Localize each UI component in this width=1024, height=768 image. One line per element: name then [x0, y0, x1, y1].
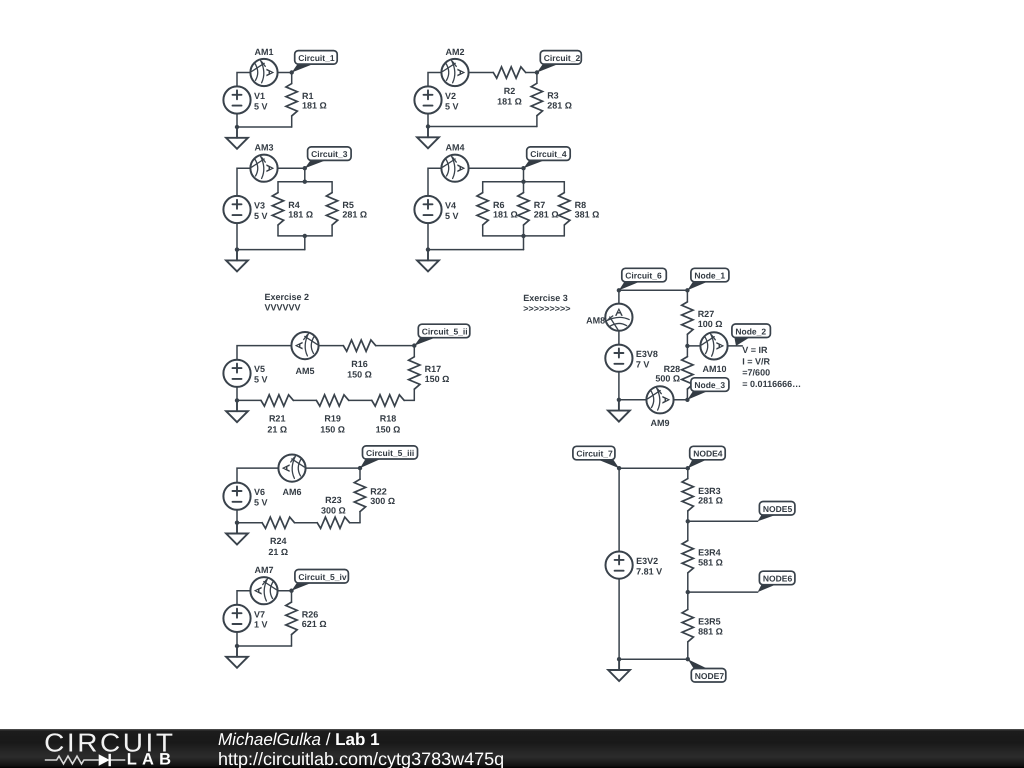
- svg-text:R7: R7: [534, 200, 546, 210]
- svg-text:I = V/R: I = V/R: [742, 356, 770, 366]
- svg-text:Circuit_1: Circuit_1: [298, 53, 335, 63]
- resistor R22: [359, 468, 361, 479]
- wire to AM9: [619, 399, 647, 401]
- ammeter AM5: [291, 332, 318, 359]
- logo resistor-diode symbol: [45, 756, 126, 764]
- junction rail bottom c4: [521, 234, 525, 238]
- resistor R23: [317, 517, 349, 528]
- wire rail top c3: [278, 181, 332, 183]
- flag Circuit_5_iv: [292, 583, 313, 591]
- wire bottom circuit 5_iv: [237, 645, 292, 647]
- ground c5ii: [226, 400, 248, 422]
- svg-text:R8: R8: [575, 200, 587, 210]
- svg-text:V3: V3: [254, 200, 265, 210]
- wire AM7 to node: [278, 590, 292, 592]
- wire AM9 to Node_3: [674, 399, 688, 401]
- junction ground node c2: [426, 124, 430, 128]
- svg-text:E3V8: E3V8: [636, 349, 658, 359]
- svg-text:AM3: AM3: [254, 143, 273, 153]
- svg-text:AM9: AM9: [650, 418, 669, 428]
- svg-text:Circuit_5_iv: Circuit_5_iv: [298, 572, 346, 582]
- svg-text:Exercise 2: Exercise 2: [265, 292, 310, 302]
- flag Circuit_6: [619, 282, 640, 291]
- resistor R18: [372, 395, 404, 406]
- svg-text:150 Ω: 150 Ω: [376, 425, 401, 435]
- junction node Circuit_3: [303, 166, 307, 170]
- svg-text:5 V: 5 V: [445, 101, 459, 111]
- svg-text:R3: R3: [547, 91, 559, 101]
- svg-text:5 V: 5 V: [254, 375, 268, 385]
- flag Circuit_2: [537, 64, 558, 72]
- svg-text:5 V: 5 V: [254, 498, 268, 508]
- junction node Node_3: [685, 398, 689, 402]
- svg-text:NODE4: NODE4: [693, 449, 723, 459]
- svg-text:V1: V1: [254, 91, 265, 101]
- wire R18 to R17: [404, 399, 414, 401]
- junction node Circuit_5_iv: [289, 589, 293, 593]
- wire AM4 to node: [469, 167, 524, 169]
- flag Node_2: [734, 338, 749, 346]
- ammeter AM4: [441, 155, 468, 182]
- resistor R7: [523, 182, 525, 193]
- wire AM3 to node: [278, 167, 305, 169]
- svg-text:Circuit_5_iii: Circuit_5_iii: [366, 448, 414, 458]
- wire R19 to R18: [349, 399, 372, 401]
- svg-text:VVVVVV: VVVVVV: [265, 302, 301, 312]
- svg-text:281 Ω: 281 Ω: [534, 210, 559, 220]
- resistor R26: [291, 591, 293, 602]
- svg-text:AM6: AM6: [282, 487, 301, 497]
- junction ground node c4: [426, 247, 430, 251]
- resistor R16: [343, 340, 375, 351]
- wire R23 to R22: [350, 522, 360, 524]
- svg-text:E3R4: E3R4: [698, 548, 721, 558]
- wire V3 bottom: [236, 223, 238, 250]
- svg-text:Node_2: Node_2: [735, 326, 766, 336]
- flag NODE7: [688, 659, 707, 668]
- wire V2 top to AM2: [428, 73, 441, 87]
- wire to NODE5 flag: [688, 520, 758, 522]
- wire R16 to node: [376, 345, 415, 347]
- svg-text:AM4: AM4: [445, 143, 464, 153]
- wire bottom circuit 1: [237, 126, 292, 128]
- flag Circuit_5_iii: [360, 459, 381, 468]
- wire bottom circuit 7: [619, 658, 688, 660]
- svg-text:R24: R24: [270, 536, 287, 546]
- svg-text:21 Ω: 21 Ω: [267, 425, 287, 435]
- wire V2 bottom: [427, 114, 429, 127]
- svg-text:AM1: AM1: [254, 47, 273, 57]
- svg-text:181 Ω: 181 Ω: [493, 210, 518, 220]
- wire R2 to node: [526, 72, 537, 74]
- svg-text:100 Ω: 100 Ω: [698, 319, 723, 329]
- junction ground node c5iv: [235, 644, 239, 648]
- svg-text:E3V2: E3V2: [636, 556, 658, 566]
- junction rail bottom c3: [303, 234, 307, 238]
- svg-text:R22: R22: [370, 486, 387, 496]
- wire V4 bottom: [427, 223, 429, 250]
- wire V4 top to AM4: [428, 168, 441, 196]
- svg-text:Circuit_7: Circuit_7: [576, 449, 613, 459]
- ammeter AM1: [250, 59, 277, 86]
- flag Circuit_4: [524, 160, 545, 168]
- svg-text:V = IR: V = IR: [742, 345, 768, 355]
- svg-text:Circuit_3: Circuit_3: [311, 149, 348, 159]
- svg-text:AM8: AM8: [586, 316, 605, 326]
- wire AM5 to R16: [319, 345, 344, 347]
- svg-text:AM7: AM7: [254, 565, 273, 575]
- ammeter AM10: [700, 332, 727, 359]
- junction node NODE4: [686, 466, 690, 470]
- svg-text:5 V: 5 V: [445, 211, 459, 221]
- wire E3V2 bottom: [618, 579, 620, 660]
- svg-text:581 Ω: 581 Ω: [698, 558, 723, 568]
- junction ground node c3: [235, 247, 239, 251]
- wire E3V8 bottom: [618, 372, 620, 400]
- svg-text:AM5: AM5: [295, 366, 314, 376]
- wire bottom circuit 4: [428, 249, 524, 251]
- junction node Circuit_7: [617, 466, 621, 470]
- svg-text:V5: V5: [254, 364, 265, 374]
- flag Node_1: [687, 282, 707, 291]
- resistor R4: [277, 182, 279, 193]
- svg-text:281 Ω: 281 Ω: [698, 496, 723, 506]
- wire V3 top to AM3: [237, 168, 250, 196]
- junction node NODE7: [686, 657, 690, 661]
- svg-text:300 Ω: 300 Ω: [370, 496, 395, 506]
- wire R21 to R19: [293, 399, 316, 401]
- svg-text:=7/600: =7/600: [742, 368, 770, 378]
- CircuitLab logo: [30, 728, 230, 768]
- svg-text:281 Ω: 281 Ω: [547, 100, 572, 110]
- wire rail bottom c4: [483, 235, 565, 237]
- junction node Circuit_4: [521, 166, 525, 170]
- junction rail top c3: [303, 180, 307, 184]
- svg-text:R5: R5: [342, 200, 354, 210]
- resistor R28: [686, 346, 688, 357]
- junction node Circuit_6: [617, 288, 621, 292]
- resistor E3R3: [687, 468, 689, 478]
- footer author line: [218, 730, 380, 750]
- voltage source V2: [414, 86, 458, 113]
- junction node Circuit_5_iii: [358, 466, 362, 470]
- ammeter AM3: [250, 155, 277, 182]
- resistor R24: [262, 517, 294, 528]
- resistor R6: [482, 182, 484, 193]
- wire V7 bottom: [236, 632, 238, 646]
- wire V7 top to AM7: [237, 591, 250, 605]
- wire to AM8: [618, 290, 620, 303]
- voltage source V7: [223, 605, 267, 632]
- resistor E3R5: [687, 592, 689, 609]
- junction node NODE6: [686, 590, 690, 594]
- svg-text:R21: R21: [269, 414, 286, 424]
- svg-text:NODE6: NODE6: [763, 574, 793, 584]
- resistor R8: [563, 182, 565, 193]
- svg-text:= 0.0116666…: = 0.0116666…: [742, 379, 801, 389]
- flag Node_3: [687, 391, 707, 400]
- svg-text:5 V: 5 V: [254, 211, 268, 221]
- wire node down c4: [523, 168, 525, 182]
- wire to R24: [237, 522, 262, 524]
- junction ground node c6: [617, 398, 621, 402]
- junction node Node_1: [685, 288, 689, 292]
- wire V5 bottom: [236, 387, 238, 401]
- wire V5 top to AM5: [237, 346, 291, 360]
- ammeter AM8: [605, 304, 632, 331]
- wire rail bottom c3: [278, 235, 332, 237]
- ammeter AM2: [441, 59, 468, 86]
- resistor R2: [493, 67, 525, 78]
- svg-text:Circuit_4: Circuit_4: [530, 149, 567, 159]
- wire bottom circuit 3: [237, 249, 305, 251]
- resistor R27: [686, 290, 688, 302]
- svg-text:181 Ω: 181 Ω: [497, 97, 522, 107]
- wire AM2 to R2: [469, 72, 494, 74]
- voltage source V4: [414, 196, 458, 223]
- svg-text:R18: R18: [380, 414, 397, 424]
- flag Circuit_1: [292, 64, 313, 72]
- voltage source V1: [223, 86, 267, 113]
- svg-text:150 Ω: 150 Ω: [347, 370, 372, 380]
- svg-text:R28: R28: [664, 364, 681, 374]
- svg-text:281 Ω: 281 Ω: [342, 210, 367, 220]
- wire AM8 to E3V8: [618, 331, 620, 345]
- ground c7: [608, 659, 630, 681]
- ground c5iv: [226, 646, 248, 668]
- resistor R1: [291, 73, 293, 84]
- svg-text:R1: R1: [302, 91, 314, 101]
- resistor R17: [413, 346, 415, 357]
- ground c2: [417, 127, 439, 149]
- wire bottom circuit 2: [428, 126, 537, 128]
- svg-text:Circuit_6: Circuit_6: [625, 271, 662, 281]
- svg-text:R17: R17: [425, 364, 442, 374]
- wire node down: [304, 168, 306, 182]
- svg-text:V6: V6: [254, 487, 265, 497]
- wire rail to bottom c4: [523, 236, 525, 250]
- footer bar: [0, 729, 1024, 768]
- svg-text:300 Ω: 300 Ω: [321, 506, 346, 516]
- wire V6 top to AM6: [237, 468, 278, 482]
- svg-text:R19: R19: [324, 414, 341, 424]
- svg-text:Exercise 3: Exercise 3: [523, 293, 568, 303]
- flag NODE6: [758, 585, 776, 592]
- svg-text:881 Ω: 881 Ω: [698, 626, 723, 636]
- junction node Node_2 branch: [685, 344, 689, 348]
- svg-text:7 V: 7 V: [636, 360, 650, 370]
- svg-text:5 V: 5 V: [254, 101, 268, 111]
- voltage source V5: [223, 360, 267, 387]
- svg-text:R6: R6: [493, 200, 505, 210]
- wire V6 bottom: [236, 510, 238, 523]
- svg-text:1 V: 1 V: [254, 620, 268, 630]
- resistor E3R4: [687, 521, 689, 540]
- ammeter AM7: [250, 577, 277, 604]
- svg-text:7.81 V: 7.81 V: [636, 566, 662, 576]
- junction node Circuit_2: [535, 70, 539, 74]
- junction ground node c7: [617, 657, 621, 661]
- ground c5iii: [226, 523, 248, 545]
- voltage source V6: [223, 483, 267, 510]
- svg-text:AM10: AM10: [702, 364, 726, 374]
- svg-text:V4: V4: [445, 200, 456, 210]
- wire top circuit 7: [619, 467, 688, 469]
- junction node Circuit_5_ii: [412, 343, 416, 347]
- svg-text:E3R3: E3R3: [698, 486, 721, 496]
- resistor R21: [261, 395, 293, 406]
- voltage source V3: [223, 196, 267, 223]
- svg-text:150 Ω: 150 Ω: [320, 425, 345, 435]
- wire AM1 to node: [278, 72, 292, 74]
- svg-text:NODE7: NODE7: [695, 671, 725, 681]
- resistor R5: [331, 182, 333, 193]
- junction node Circuit_1: [290, 70, 294, 74]
- junction rail top c4: [521, 180, 525, 184]
- flag Circuit_3: [305, 160, 326, 168]
- svg-text:E3R5: E3R5: [698, 617, 721, 627]
- wire to AM10: [687, 345, 700, 347]
- junction ground node c5ii: [235, 398, 239, 402]
- ground c1: [226, 127, 248, 149]
- resistor R19: [316, 395, 348, 406]
- svg-text:V2: V2: [445, 91, 456, 101]
- ammeter AM6: [278, 455, 305, 482]
- svg-text:>>>>>>>>>: >>>>>>>>>: [523, 303, 570, 313]
- svg-text:V7: V7: [254, 609, 265, 619]
- svg-text:LAB: LAB: [127, 751, 177, 768]
- ground c4: [417, 250, 439, 272]
- svg-text:Circuit_5_ii: Circuit_5_ii: [422, 327, 468, 337]
- svg-text:Node_1: Node_1: [694, 271, 725, 281]
- svg-text:R23: R23: [325, 495, 342, 505]
- flag Circuit_5_ii: [414, 338, 435, 346]
- svg-text:R27: R27: [698, 309, 715, 319]
- junction node NODE5: [686, 519, 690, 523]
- wire V1 bottom: [236, 114, 238, 127]
- svg-text:AM2: AM2: [445, 47, 464, 57]
- wire rail to bottom: [304, 236, 306, 250]
- svg-text:181 Ω: 181 Ω: [302, 101, 327, 111]
- svg-text:500 Ω: 500 Ω: [655, 374, 680, 384]
- svg-text:R26: R26: [302, 609, 319, 619]
- voltage source E3V2: [606, 552, 663, 579]
- junction ground node c5iii: [235, 521, 239, 525]
- svg-text:621 Ω: 621 Ω: [302, 619, 327, 629]
- wire R24 to R23: [295, 522, 318, 524]
- ammeter AM9: [646, 386, 673, 413]
- resistor R3: [536, 73, 538, 84]
- wire rail top c4: [483, 181, 565, 183]
- svg-text:Node_3: Node_3: [694, 380, 725, 390]
- wire to NODE6 flag: [688, 591, 758, 593]
- svg-text:150 Ω: 150 Ω: [425, 374, 450, 384]
- junction ground node c1: [235, 125, 239, 129]
- svg-text:Circuit_2: Circuit_2: [544, 53, 581, 63]
- svg-text:R2: R2: [504, 86, 516, 96]
- flag NODE5: [758, 515, 776, 521]
- svg-text:181 Ω: 181 Ω: [288, 210, 313, 220]
- svg-text:381 Ω: 381 Ω: [575, 210, 600, 220]
- ground c6: [608, 400, 630, 422]
- flag NODE4: [688, 460, 707, 468]
- wire top circuit 6: [619, 289, 688, 291]
- flag Circuit_7: [598, 460, 619, 468]
- wire AM10 to Node_2: [728, 345, 743, 347]
- ground c3: [226, 250, 248, 272]
- svg-text:R4: R4: [288, 200, 300, 210]
- wire AM6 to node: [306, 467, 360, 469]
- footer url line: [218, 749, 504, 768]
- wire to R21: [237, 399, 261, 401]
- svg-text:21 Ω: 21 Ω: [268, 547, 288, 557]
- wire to E3V2: [618, 468, 620, 551]
- wire V1 top to AM1: [237, 73, 250, 87]
- svg-text:NODE5: NODE5: [763, 504, 793, 514]
- voltage source E3V8: [605, 345, 658, 372]
- svg-text:R16: R16: [351, 359, 368, 369]
